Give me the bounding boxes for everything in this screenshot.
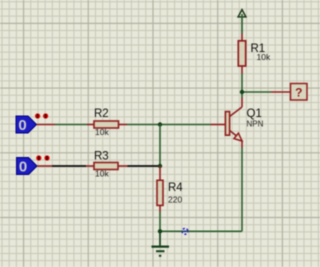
toggle dot 1a <box>35 113 40 118</box>
svg-text:Q1: Q1 <box>247 108 262 120</box>
svg-text:10k: 10k <box>257 52 271 62</box>
R2 left lead <box>87 124 94 126</box>
input 1 lead <box>37 124 56 126</box>
resistor R3 <box>94 163 118 170</box>
origin marker <box>182 228 188 234</box>
svg-text:10k: 10k <box>95 127 109 137</box>
wire to probe <box>242 91 271 93</box>
node junction ground <box>158 229 162 233</box>
R4 bottom lead <box>159 205 161 212</box>
resistor R1 <box>238 41 245 66</box>
R4 top lead <box>159 166 161 180</box>
logic probe ? <box>291 84 308 101</box>
wire input1 to R2 <box>55 124 87 126</box>
svg-text:0: 0 <box>19 158 27 175</box>
logic input 2 <box>17 158 38 176</box>
toggle dot 1b <box>43 113 48 118</box>
toggle dot 2b <box>44 155 49 160</box>
svg-text:10k: 10k <box>95 169 109 179</box>
svg-text:?: ? <box>295 86 302 100</box>
node junction row2 <box>158 164 162 168</box>
R2 right lead <box>119 124 128 126</box>
transistor Q1 <box>211 98 243 148</box>
svg-text:0: 0 <box>18 117 26 134</box>
R3 right lead <box>118 165 128 167</box>
svg-text:NPN: NPN <box>247 120 264 129</box>
wire R4 to ground rail <box>159 212 161 231</box>
wire bottom rail <box>160 230 242 232</box>
wire input2 to R3 (black) <box>52 165 86 167</box>
power symbol VCC arrow <box>238 10 246 34</box>
wire R3 to junction (black) <box>128 165 161 167</box>
wire vertical row1-row2 <box>159 125 161 167</box>
input 2 lead <box>37 165 52 167</box>
probe lead <box>271 91 291 93</box>
resistor R4 <box>157 180 163 205</box>
wire emitter down <box>241 148 243 232</box>
node junction at collector <box>240 90 244 94</box>
wire collector vertical <box>241 74 243 98</box>
svg-text:R3: R3 <box>94 151 109 163</box>
svg-text:R4: R4 <box>168 182 183 194</box>
wire R2 to base <box>127 124 211 126</box>
ground <box>152 231 170 256</box>
svg-text:R2: R2 <box>94 108 109 120</box>
R3 left lead <box>86 165 94 167</box>
toggle dot 2a <box>36 155 41 160</box>
logic input 1 <box>16 116 37 134</box>
node junction row1 <box>158 122 162 126</box>
wire R1 bottom lead <box>241 66 243 74</box>
resistor R2 <box>94 121 119 128</box>
svg-text:220: 220 <box>168 195 182 205</box>
wire R1 top lead <box>241 34 243 42</box>
